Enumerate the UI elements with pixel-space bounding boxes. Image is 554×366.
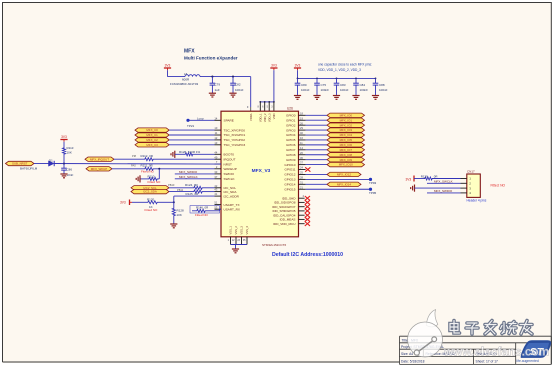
wire to VDDA xyxy=(250,77,252,107)
wire to I2C_SCL xyxy=(203,187,215,189)
port flag MFX_IO5 xyxy=(327,138,365,142)
svg-text:VDD: VDD xyxy=(272,113,276,119)
power symbol 3V3 (I2C_ADDR) xyxy=(120,200,132,206)
no-connect X xyxy=(305,200,310,204)
ground xyxy=(232,249,239,253)
resistor R129 0R xyxy=(421,174,438,180)
wire xyxy=(306,154,327,156)
node junction xyxy=(158,168,160,170)
svg-text:3V3: 3V3 xyxy=(406,178,412,182)
svg-text:life.augmented: life.augmented xyxy=(517,359,539,363)
svg-text:NRST: NRST xyxy=(224,162,233,166)
port flag I2C2_SDA xyxy=(131,189,169,193)
svg-text:GPIO7: GPIO7 xyxy=(286,148,296,152)
svg-text:one capacitor close to each MF: one capacitor close to each MFX pins: xyxy=(318,63,372,67)
wire xyxy=(306,144,327,146)
node junctions on rail xyxy=(297,78,299,80)
svg-text:www.elecfans.com: www.elecfans.com xyxy=(443,345,549,359)
svg-text:FCM1608KF-601T03: FCM1608KF-601T03 xyxy=(170,82,199,86)
svg-text:R129: R129 xyxy=(421,174,428,178)
svg-text:GPIO4: GPIO4 xyxy=(286,133,296,137)
wire xyxy=(168,76,186,78)
wire xyxy=(158,201,174,203)
svg-text:VDD_3: VDD_3 xyxy=(267,113,271,122)
svg-text:MFX_IO7: MFX_IO7 xyxy=(340,148,353,152)
ic right pin names GPIO0-GPIO15, stubs and numbers xyxy=(284,111,305,191)
wire VSS bus xyxy=(231,244,248,246)
capacitor C79 1uF xyxy=(210,77,221,94)
svg-text:3V3: 3V3 xyxy=(120,201,126,205)
svg-text:R146, 0R: R146, 0R xyxy=(196,205,208,209)
svg-text:I2C2_SDA: I2C2_SDA xyxy=(143,190,157,194)
svg-text:VSS_2: VSS_2 xyxy=(234,226,238,235)
svg-text:C82: C82 xyxy=(235,83,241,87)
port flag MFX_IO9 xyxy=(327,157,365,161)
wire to CN17 pin 1 xyxy=(433,178,461,180)
svg-text:GPIO8: GPIO8 xyxy=(286,153,296,157)
svg-text:GPIO11: GPIO11 xyxy=(285,168,296,172)
svg-text:TSC_XN/GPO1: TSC_XN/GPO1 xyxy=(224,133,246,137)
svg-text:MFX_IO14: MFX_IO14 xyxy=(337,182,351,186)
svg-text:R110: R110 xyxy=(148,174,155,178)
port flag MFX_IO2 xyxy=(327,123,365,127)
svg-text:SUB_NRST: SUB_NRST xyxy=(12,162,28,166)
ground xyxy=(170,224,177,228)
svg-text:C75: C75 xyxy=(321,83,327,87)
port flag SUB_NRST xyxy=(6,161,35,165)
svg-text:STM32L152CCT6: STM32L152CCT6 xyxy=(262,243,287,247)
port flag MFX_C2 xyxy=(135,138,169,142)
wire xyxy=(140,178,148,180)
svg-text:GPIO15: GPIO15 xyxy=(284,187,295,191)
resistor R126 510R 1% xyxy=(179,150,201,156)
wire xyxy=(306,159,327,161)
svg-text:U26: U26 xyxy=(287,106,293,110)
svg-text:MFX_IO3: MFX_IO3 xyxy=(340,128,353,132)
ic bottom pin names VSS xyxy=(229,226,250,235)
diode D1 BAT60JFILM xyxy=(20,159,54,171)
svg-text:3V3: 3V3 xyxy=(61,135,67,139)
svg-text:Date: 5/18/2018: Date: 5/18/2018 xyxy=(401,360,425,364)
ground xyxy=(352,96,359,100)
wire xyxy=(306,183,327,185)
pin stubs VDD_1 VDD_2 VDD_3 VDD xyxy=(260,102,274,111)
capacitor C75 100nF xyxy=(314,78,329,95)
svg-text:PB11: PB11 xyxy=(177,188,184,192)
connector CN17 header 4 pins xyxy=(461,169,487,202)
svg-text:10K: 10K xyxy=(67,151,72,155)
svg-text:MFX_IO9: MFX_IO9 xyxy=(340,158,353,162)
capacitor C88 100nF xyxy=(373,78,388,95)
svg-text:TSC_XP/GPO0: TSC_XP/GPO0 xyxy=(224,128,246,132)
svg-text:GPIO13: GPIO13 xyxy=(284,178,295,182)
svg-text:L6: L6 xyxy=(184,72,188,76)
wire to BOOT0 xyxy=(194,153,215,155)
svg-text:MFX_IO10: MFX_IO10 xyxy=(339,163,353,167)
wire xyxy=(169,191,193,193)
wire xyxy=(306,139,327,141)
resistor R111 0R fitted no xyxy=(131,164,155,174)
svg-text:SWCLK: SWCLK xyxy=(224,177,236,181)
ic right pin names IDD group with no-connect marks xyxy=(272,194,304,226)
svg-text:MFX_C2: MFX_C2 xyxy=(146,138,158,142)
op-amp U26 MFX_V3 STM32L152CCT6 ic body xyxy=(221,106,299,247)
svg-text:MFX_C0: MFX_C0 xyxy=(146,128,158,132)
resistor R146 0R in optional box (USART_RX) fitted no xyxy=(190,205,221,217)
svg-text:Fitted NO: Fitted NO xyxy=(195,213,209,217)
svg-text:Loop: Loop xyxy=(197,116,204,120)
svg-text:GPIO1: GPIO1 xyxy=(286,118,296,122)
svg-text:Fitted NO: Fitted NO xyxy=(141,170,155,174)
svg-text:100nF: 100nF xyxy=(340,88,349,92)
wire xyxy=(306,164,327,166)
svg-text:IRQOUT: IRQOUT xyxy=(224,157,236,161)
wire xyxy=(169,139,214,141)
resistor R124 0R xyxy=(168,183,203,189)
resistor R110 fitted no xyxy=(148,174,162,184)
wire xyxy=(169,129,214,131)
net label MFX_SWDIO and wire to CN17 pin 4 xyxy=(427,189,461,193)
no-connect X xyxy=(305,196,310,200)
svg-text:GPIO5: GPIO5 xyxy=(286,138,296,142)
wire xyxy=(306,124,327,126)
power symbol 3V3 (decoupling rail) xyxy=(294,63,301,78)
svg-text:TP93: TP93 xyxy=(369,181,377,185)
svg-text:PB10: PB10 xyxy=(168,183,175,187)
power symbol 3V3 (VDD pins) xyxy=(270,63,277,102)
ground xyxy=(209,93,216,97)
port flag MFX_IO8 xyxy=(327,153,365,157)
no-connect X xyxy=(305,222,310,226)
svg-text:R111, 0R: R111, 0R xyxy=(141,164,154,168)
svg-text:600R: 600R xyxy=(182,78,190,82)
wire and testpoint TP95 xyxy=(306,188,377,195)
svg-text:100nF: 100nF xyxy=(360,88,369,92)
svg-text:VDD, VDD_1, VDD_2, VDD_3: VDD, VDD_1, VDD_2, VDD_3 xyxy=(318,68,361,72)
svg-text:IDD_VDD_MCU: IDD_VDD_MCU xyxy=(273,222,295,226)
wire xyxy=(34,163,49,165)
svg-text:GPIO0: GPIO0 xyxy=(286,114,296,118)
wire to I2C_ADDR xyxy=(173,196,175,202)
no-connect X xyxy=(305,213,310,217)
svg-text:3V3: 3V3 xyxy=(295,63,301,67)
svg-text:BAT60JFILM: BAT60JFILM xyxy=(20,167,38,171)
svg-text:R126, 510R 1%: R126, 510R 1% xyxy=(179,150,201,154)
port flag MFX_IO14 xyxy=(327,182,361,186)
svg-text:100nF: 100nF xyxy=(379,88,388,92)
wire and testpoint TP93 xyxy=(306,178,377,185)
wire xyxy=(306,114,327,116)
svg-text:BOOT0: BOOT0 xyxy=(224,153,235,157)
port flag MFX_IO6 xyxy=(327,143,365,147)
port flag MFX_IO0 xyxy=(327,113,365,117)
wire to CN17 pin 3 xyxy=(415,187,461,189)
svg-text:TP95: TP95 xyxy=(369,191,377,195)
svg-text:100nF: 100nF xyxy=(235,88,244,92)
svg-text:CN17: CN17 xyxy=(467,169,475,173)
resistor R125 0R xyxy=(177,188,203,196)
schematic title text xyxy=(184,49,238,61)
svg-text:C84: C84 xyxy=(360,83,366,87)
port flag MFX_C0 xyxy=(135,128,169,132)
wire xyxy=(169,144,214,146)
svg-text:Fitted NO: Fitted NO xyxy=(148,180,162,184)
svg-text:VDD_1: VDD_1 xyxy=(258,113,262,122)
svg-text:Default I2C Address:1000010: Default I2C Address:1000010 xyxy=(272,252,343,258)
power symbol 3V3 xyxy=(60,135,67,146)
svg-text:VSS_1: VSS_1 xyxy=(229,226,233,235)
port flag MFX_IO10 xyxy=(327,162,365,166)
wire xyxy=(54,163,221,166)
svg-text:3V3: 3V3 xyxy=(165,63,171,67)
svg-text:MFX_IO1: MFX_IO1 xyxy=(340,118,353,122)
svg-text:VSS_4: VSS_4 xyxy=(245,226,249,235)
svg-text:VDD_2: VDD_2 xyxy=(263,113,267,122)
wire xyxy=(132,201,147,203)
ground xyxy=(294,96,301,100)
ground xyxy=(372,96,379,100)
wire xyxy=(306,129,327,131)
wire xyxy=(114,158,144,160)
svg-text:R113: R113 xyxy=(67,146,74,150)
svg-text:MFX: MFX xyxy=(184,49,195,55)
svg-text:100nF: 100nF xyxy=(301,88,310,92)
wire xyxy=(306,119,327,121)
svg-text:C80: C80 xyxy=(301,83,307,87)
svg-text:I2C_SDA: I2C_SDA xyxy=(224,190,238,194)
ic top pin names xyxy=(249,113,276,122)
node junction xyxy=(173,201,175,203)
ground xyxy=(136,175,140,182)
wire xyxy=(169,187,193,189)
svg-text:MFX_IO6: MFX_IO6 xyxy=(340,143,353,147)
svg-text:R125, 0R: R125, 0R xyxy=(186,192,200,196)
testpoint TP21 Loop xyxy=(186,116,214,128)
node junctions on VDD bus xyxy=(259,101,261,103)
wire to WAKEUP xyxy=(154,168,215,170)
port flag MFX_IO3 xyxy=(327,128,365,132)
no-connect X xyxy=(305,205,310,209)
watermark logo circle xyxy=(408,310,443,357)
svg-text:MFX_IO2: MFX_IO2 xyxy=(340,123,353,127)
svg-text:MFX_C3: MFX_C3 xyxy=(146,143,158,147)
svg-text:Fitted NO: Fitted NO xyxy=(145,208,159,212)
svg-text:GPIO3: GPIO3 xyxy=(286,128,296,132)
resistor R113 10K pullup xyxy=(63,146,74,164)
svg-text:R128: R128 xyxy=(177,209,185,213)
svg-text:0R: 0R xyxy=(434,174,438,178)
svg-text:SWDIO: SWDIO xyxy=(224,172,235,176)
wire to I2C_SDA xyxy=(203,191,215,193)
ground (BOOT0 pulldown) xyxy=(171,151,175,158)
svg-text:WAKEUP: WAKEUP xyxy=(224,167,237,171)
wire xyxy=(235,245,237,250)
svg-text:PI8: PI8 xyxy=(132,154,136,158)
svg-text:TSC_YP/GPO2: TSC_YP/GPO2 xyxy=(224,138,246,142)
svg-text:GPIO10: GPIO10 xyxy=(284,163,295,167)
svg-text:Header 4 pins: Header 4 pins xyxy=(467,198,487,202)
wire xyxy=(158,169,160,179)
svg-text:MFX_IO4: MFX_IO4 xyxy=(340,133,353,137)
wire xyxy=(175,153,185,155)
ground xyxy=(411,185,415,192)
capacitor C80 100nF xyxy=(295,78,310,95)
wire xyxy=(306,149,327,151)
svg-text:C83: C83 xyxy=(340,83,346,87)
svg-text:MFX_IO0: MFX_IO0 xyxy=(340,113,353,117)
svg-text:D1: D1 xyxy=(49,159,53,163)
svg-text:R124, 0R: R124, 0R xyxy=(185,183,199,187)
ic left pin names, stubs and numbers xyxy=(214,116,245,211)
net label MFX_SWCLK and wire xyxy=(175,175,215,179)
port flag MFX_IRQOUT xyxy=(85,157,114,161)
ic bottom VSS stubs and numbers xyxy=(228,237,247,245)
ground xyxy=(333,96,340,100)
port flag MFX_IO12 xyxy=(327,172,361,176)
ground xyxy=(313,96,320,100)
capacitor C84 100nF xyxy=(353,78,368,95)
svg-text:GPIO12: GPIO12 xyxy=(284,173,295,177)
port flag MFX_IO1 xyxy=(327,118,365,122)
title block xyxy=(400,336,552,364)
svg-text:VDDA: VDDA xyxy=(249,113,253,121)
svg-text:USART_TX: USART_TX xyxy=(224,203,240,207)
wire to IRQOUT xyxy=(154,158,215,160)
port flag MFX_C1 xyxy=(135,133,169,137)
svg-text:GPIO14: GPIO14 xyxy=(284,183,295,187)
resistor R120 1K fitted no xyxy=(145,198,159,212)
no-connect X on GPIO11 xyxy=(305,167,310,171)
svg-text:C79: C79 xyxy=(215,83,221,87)
svg-text:MFX_IRQOUT: MFX_IRQOUT xyxy=(90,157,109,161)
inductor L6 FCM1608KF-601T03 xyxy=(170,72,200,86)
svg-text:MFX_IO5: MFX_IO5 xyxy=(340,138,353,142)
port flag I2C2_SCL xyxy=(131,186,169,190)
svg-text:Size: A4: Size: A4 xyxy=(401,352,413,356)
svg-text:GPIO6: GPIO6 xyxy=(286,143,296,147)
svg-text:C86: C86 xyxy=(67,168,73,172)
svg-text:3V3: 3V3 xyxy=(271,63,277,67)
svg-text:100nF: 100nF xyxy=(321,88,330,92)
net label MFX_SWCLK and wire to CN17 pin 2 xyxy=(427,180,461,184)
svg-text:USART_RX: USART_RX xyxy=(224,207,240,211)
no-connect X xyxy=(305,217,310,221)
wire xyxy=(414,178,424,180)
svg-text:1uF: 1uF xyxy=(215,88,220,92)
svg-text:Sheet: 17 of 17: Sheet: 17 of 17 xyxy=(476,360,499,364)
svg-text:MFX_SWCLK: MFX_SWCLK xyxy=(179,175,198,179)
svg-text:TP21: TP21 xyxy=(187,124,195,128)
no-connect X xyxy=(305,209,310,213)
svg-text:Fitted: NO: Fitted: NO xyxy=(491,183,506,187)
svg-text:SPARE: SPARE xyxy=(224,119,234,123)
svg-text:VSS_3: VSS_3 xyxy=(240,226,244,235)
svg-text:GPIO2: GPIO2 xyxy=(286,123,296,127)
svg-text:MFX_IO12: MFX_IO12 xyxy=(337,173,351,177)
ST logo xyxy=(517,340,552,363)
wire xyxy=(306,134,327,136)
svg-text:PA0: PA0 xyxy=(131,164,136,168)
port flag MFX_WKUP xyxy=(86,167,112,171)
port flag MFX_C3 xyxy=(135,143,169,147)
wire decoupling rail xyxy=(298,77,376,79)
wire xyxy=(112,168,144,170)
svg-text:MFX_SWDIO: MFX_SWDIO xyxy=(179,170,198,174)
svg-text:C88: C88 xyxy=(379,83,385,87)
power symbol 3V3 (VDDA filter) xyxy=(164,63,171,76)
resistor R128 10K pulldown xyxy=(172,202,184,224)
net label MFX_SWDIO and wire xyxy=(175,170,215,174)
port flag MFX_IO4 xyxy=(327,133,365,137)
svg-text:10K: 10K xyxy=(177,213,182,217)
note text xyxy=(318,63,372,72)
svg-text:TSC_YN/GPO3: TSC_YN/GPO3 xyxy=(224,143,246,147)
wire xyxy=(200,76,251,78)
node junction xyxy=(63,163,65,165)
svg-text:MFX_WKUP: MFX_WKUP xyxy=(91,167,107,171)
capacitor C82 100nF xyxy=(230,77,243,94)
svg-text:MFX_V3: MFX_V3 xyxy=(252,168,271,174)
node junction xyxy=(211,76,213,78)
svg-text:R112, 0R: R112, 0R xyxy=(141,154,154,158)
ground xyxy=(60,174,67,178)
wire xyxy=(169,134,214,136)
svg-text:I2C_ADDR: I2C_ADDR xyxy=(224,194,240,198)
port flag MFX_IO7 xyxy=(327,148,365,152)
power symbol 3V3 (CN17 pin1) xyxy=(406,176,415,182)
svg-text:Multi Function eXpander: Multi Function eXpander xyxy=(184,56,238,61)
wire VDD bus xyxy=(260,101,274,103)
capacitor C86 10nF xyxy=(61,164,73,177)
resistor R112 0R xyxy=(132,154,154,161)
wire xyxy=(306,173,327,175)
pin stub VDDA pin 9 xyxy=(247,105,273,111)
svg-text:R120: R120 xyxy=(147,198,155,202)
ground xyxy=(229,93,236,97)
svg-text:GPIO9: GPIO9 xyxy=(286,158,296,162)
svg-text:MFX_IO8: MFX_IO8 xyxy=(340,153,353,157)
capacitor C83 100nF xyxy=(334,78,349,95)
watermark chinese characters xyxy=(450,321,532,335)
svg-text:MFX_C1: MFX_C1 xyxy=(146,133,158,137)
